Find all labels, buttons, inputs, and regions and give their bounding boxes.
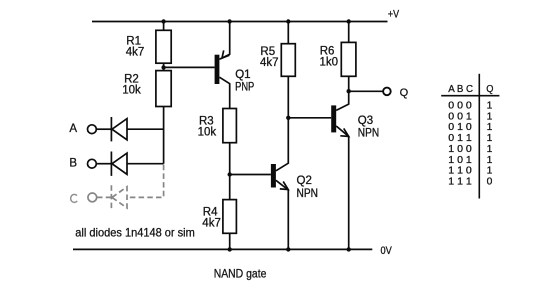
wire Q2 emitter to rail [276, 180, 288, 249]
wire R6 top stub [348, 22, 350, 43]
wire Q3 base [288, 117, 331, 119]
transistor Q2 body [271, 164, 276, 188]
junction rail R4 [228, 247, 232, 251]
diode D2 (input B) [111, 152, 127, 176]
wire R5 bottom to Q2 collector [276, 76, 288, 171]
truth table divider horizontal [441, 95, 499, 97]
svg-text:0: 0 [487, 176, 493, 187]
svg-text:Q3: Q3 [358, 115, 373, 127]
svg-text:0 0 1: 0 0 1 [448, 111, 472, 122]
label input C [71, 194, 78, 202]
wire R1-R2 link [163, 63, 165, 70]
wire R1 top stub [163, 22, 165, 31]
svg-text:R4: R4 [203, 206, 218, 218]
junction rail R6 [347, 19, 351, 23]
svg-text:R6: R6 [320, 45, 335, 57]
diode D3 (input C, optional) [111, 185, 127, 209]
svg-text:1: 1 [487, 155, 493, 166]
junction rail R1 [161, 19, 165, 23]
resistor R3 [223, 109, 237, 143]
svg-text:0 1 0: 0 1 0 [448, 122, 472, 133]
svg-text:1: 1 [487, 133, 493, 144]
svg-text:A B C: A B C [448, 84, 473, 95]
terminal input C [88, 193, 97, 202]
transistor Q3 body [331, 105, 336, 132]
svg-text:1 0 0: 1 0 0 [448, 144, 472, 155]
svg-text:NPN: NPN [297, 188, 318, 200]
junction rail R5 [286, 19, 290, 23]
svg-text:Q2: Q2 [297, 175, 312, 187]
svg-text:R3: R3 [199, 115, 214, 127]
svg-text:B: B [69, 157, 77, 169]
terminal input A [88, 125, 97, 134]
junction node R3-R4 [228, 172, 232, 176]
svg-text:1 1 1: 1 1 1 [448, 176, 472, 187]
diode D1 (input A) [111, 117, 127, 141]
svg-text:1k0: 1k0 [320, 57, 339, 69]
resistor R4 [223, 200, 237, 234]
wire R2 bottom to input bus [163, 107, 165, 164]
svg-text:A: A [69, 123, 77, 135]
resistor R1 [156, 30, 171, 63]
wire input A to diode [97, 128, 112, 130]
wire diode B to bus [127, 163, 164, 165]
wire R4 bottom to rail [229, 233, 231, 249]
junction rail Q2 emitter [286, 247, 290, 251]
wire Q1 collector to R3 [219, 77, 229, 108]
svg-text:all diodes 1n4148 or sim: all diodes 1n4148 or sim [75, 225, 195, 239]
wire Q3 emitter to rail [336, 126, 349, 249]
wire dashed input C to diode [97, 196, 111, 198]
transistor Q1 body [215, 55, 220, 84]
wire R3 bottom to R4 top [229, 143, 231, 200]
svg-text:10k: 10k [122, 85, 141, 97]
wire Q2 base [230, 174, 271, 176]
svg-text:1 1 0: 1 1 0 [448, 166, 472, 177]
svg-text:4k7: 4k7 [202, 218, 221, 230]
transistor Q3 emitter arrow [340, 128, 348, 136]
junction node R6-output [347, 89, 351, 93]
wire Q1 base [164, 66, 215, 68]
svg-text:1: 1 [487, 166, 493, 177]
resistor R6 [341, 42, 356, 76]
resistor R2 [156, 71, 171, 107]
wire R5 top stub [287, 22, 289, 44]
svg-text:4k7: 4k7 [126, 47, 145, 59]
svg-text:10k: 10k [198, 127, 217, 139]
wire R6 bottom to output node [348, 76, 350, 91]
svg-text:Q: Q [486, 84, 493, 95]
svg-text:1: 1 [487, 101, 493, 112]
svg-text:0V: 0V [381, 245, 393, 257]
svg-text:1: 1 [487, 122, 493, 133]
svg-text:R2: R2 [124, 73, 139, 85]
wire top supply rail [92, 21, 388, 23]
resistor R5 [281, 44, 295, 77]
svg-text:1: 1 [487, 144, 493, 155]
wire Q3 collector [336, 91, 349, 110]
junction rail Q1 emitter [227, 19, 231, 23]
svg-text:4k7: 4k7 [260, 57, 279, 69]
transistor Q1 emitter arrow [222, 50, 229, 58]
wire input B to diode [97, 163, 112, 165]
wire Q1 emitter [219, 22, 229, 60]
wire diode A to bus [127, 128, 164, 130]
svg-text:Q: Q [400, 87, 409, 99]
wire dashed bus B to C and to diode C [127, 165, 163, 198]
wire output to Q terminal [349, 90, 384, 92]
junction node R5-Q3 base [286, 116, 290, 120]
svg-text:+V: +V [388, 9, 400, 21]
svg-text:0 0 0: 0 0 0 [448, 101, 472, 112]
svg-text:1: 1 [487, 111, 493, 122]
junction node R1-R2 [161, 65, 165, 69]
wire bottom 0V rail [73, 248, 372, 250]
svg-text:PNP: PNP [235, 82, 254, 94]
svg-text:Q1: Q1 [235, 69, 250, 81]
terminal input B [88, 159, 97, 168]
junction rail Q3 emitter [347, 247, 351, 251]
truth table divider vertical [478, 74, 480, 199]
terminal output Q [383, 88, 391, 96]
svg-text:NPN: NPN [358, 128, 379, 140]
transistor Q2 emitter arrow [280, 182, 288, 190]
svg-text:0 1 1: 0 1 1 [448, 133, 472, 144]
svg-text:1 0 1: 1 0 1 [448, 155, 472, 166]
svg-text:NAND gate: NAND gate [214, 267, 267, 281]
